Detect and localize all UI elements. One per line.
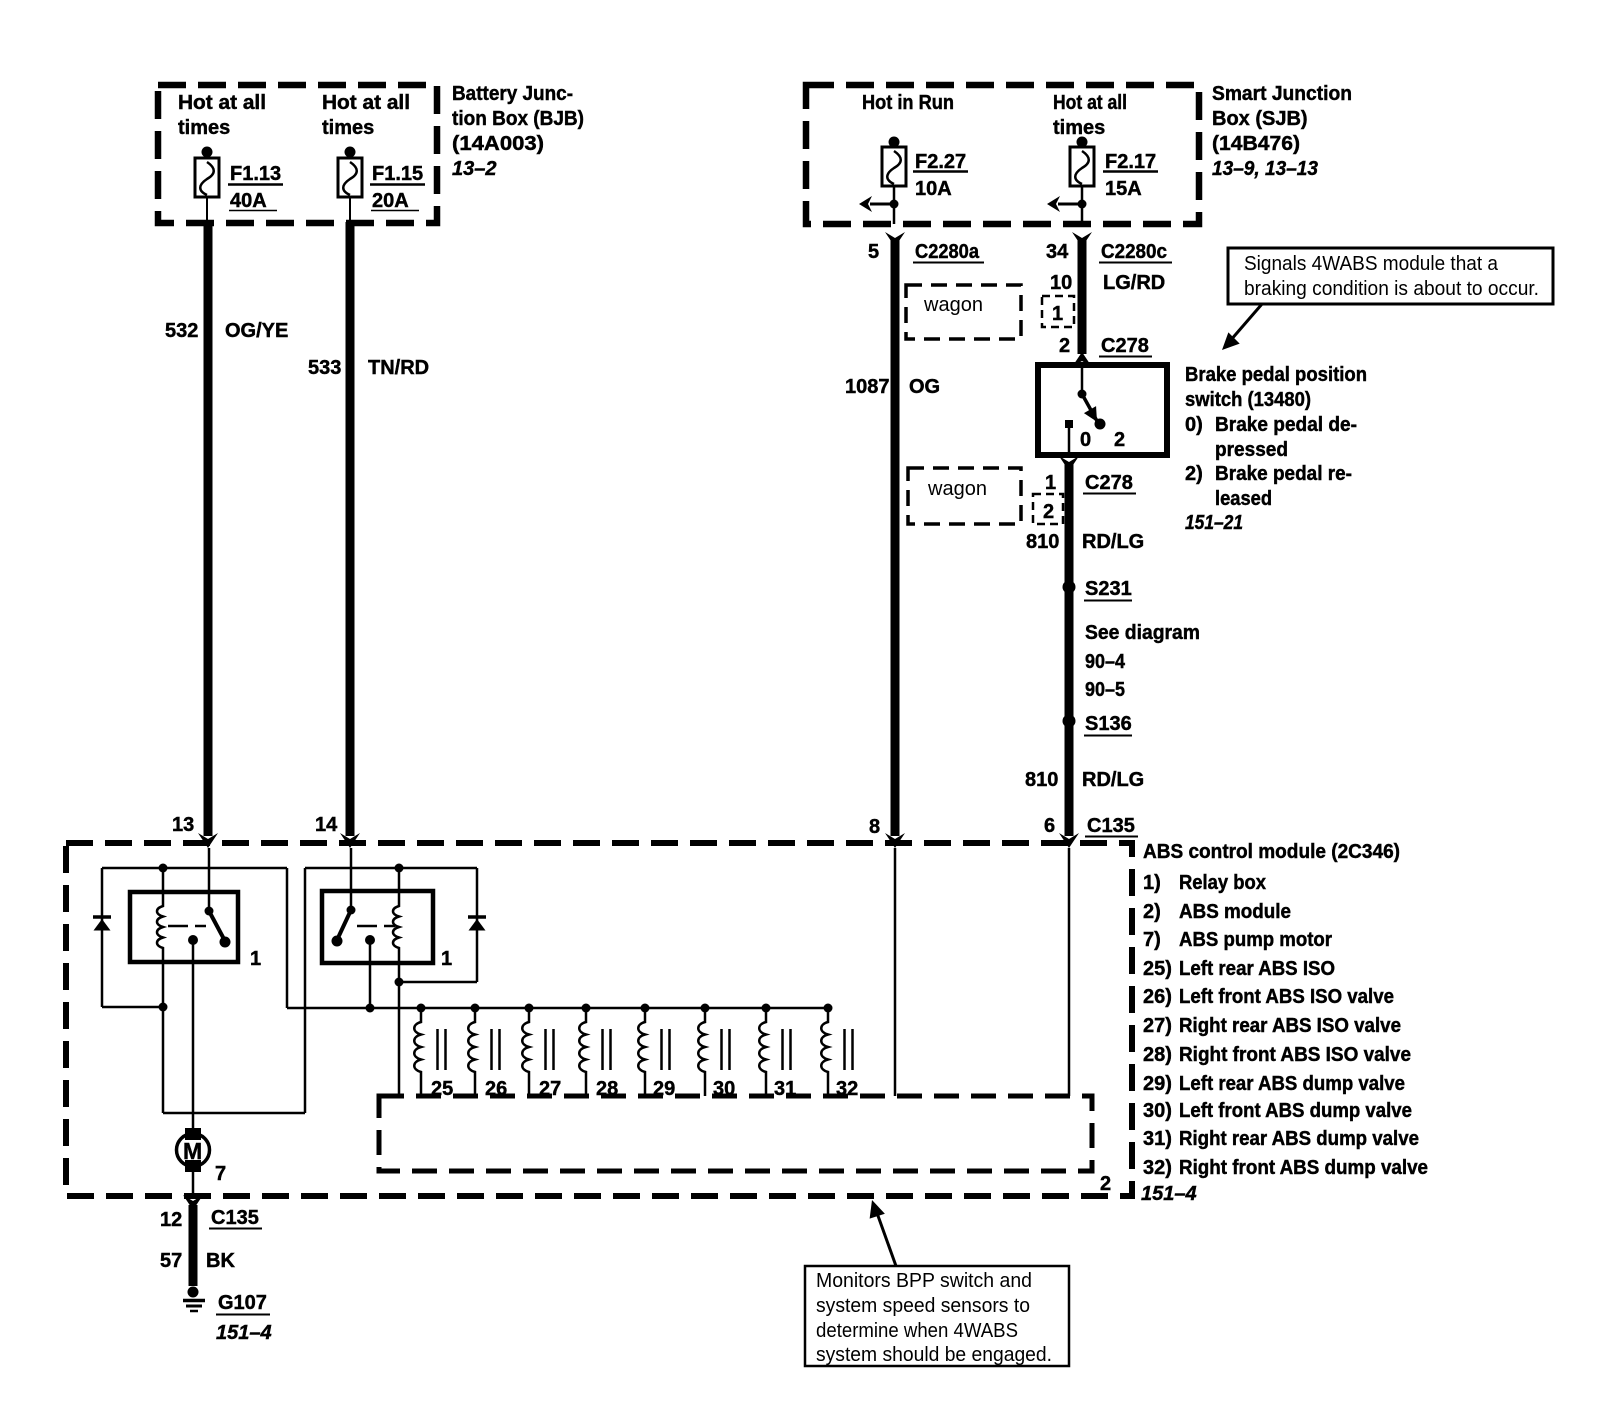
in-line connector 2 xyxy=(1033,494,1063,524)
svg-text:25): 25) xyxy=(1143,958,1172,980)
in-line connector 1 xyxy=(1042,296,1074,327)
svg-text:12: 12 xyxy=(160,1209,182,1231)
svg-text:F2.27: F2.27 xyxy=(915,151,966,173)
ABS module (2) inner dashed box xyxy=(379,1096,1111,1195)
splice S136 xyxy=(1063,713,1133,736)
pin 13 into ABS module xyxy=(172,814,218,848)
fuse F1.15 20A xyxy=(322,92,425,222)
svg-text:switch (13480): switch (13480) xyxy=(1185,389,1311,411)
svg-text:RD/LG: RD/LG xyxy=(1082,769,1144,791)
svg-text:2: 2 xyxy=(1114,429,1125,451)
svg-text:5: 5 xyxy=(868,241,879,263)
valve 27 right rear ABS ISO xyxy=(522,1004,561,1101)
wire 533 TN/RD xyxy=(308,222,429,836)
svg-text:(14B476): (14B476) xyxy=(1212,133,1300,155)
svg-text:27): 27) xyxy=(1143,1015,1172,1037)
svg-text:Right rear ABS ISO valve: Right rear ABS ISO valve xyxy=(1179,1015,1401,1037)
svg-text:90–5: 90–5 xyxy=(1085,679,1125,701)
svg-text:C2280c: C2280c xyxy=(1101,241,1167,263)
Smart Junction Box (SJB) dashed enclosure xyxy=(806,83,1352,224)
svg-text:7: 7 xyxy=(215,1163,226,1185)
SJB bus arrow left of F2.27 xyxy=(859,196,899,212)
svg-text:57: 57 xyxy=(160,1250,182,1272)
svg-text:C135: C135 xyxy=(1087,815,1135,837)
svg-text:533: 533 xyxy=(308,357,341,379)
svg-text:C278: C278 xyxy=(1101,335,1149,357)
wire 1087 OG xyxy=(845,240,940,836)
svg-text:leased: leased xyxy=(1215,488,1272,510)
svg-text:151–21: 151–21 xyxy=(1185,512,1243,534)
svg-text:10A: 10A xyxy=(915,178,952,200)
fuse F1.13 40A xyxy=(178,92,283,222)
svg-text:ABS control module (2C346): ABS control module (2C346) xyxy=(1143,841,1400,863)
fuse F2.27 10A xyxy=(862,92,968,224)
diode D1 (relay 1 clamp) xyxy=(93,868,111,1007)
svg-text:ABS module: ABS module xyxy=(1179,901,1291,923)
svg-text:Left rear ABS ISO: Left rear ABS ISO xyxy=(1179,958,1335,980)
svg-text:90–4: 90–4 xyxy=(1085,651,1126,673)
svg-text:wagon: wagon xyxy=(923,294,983,316)
svg-text:34: 34 xyxy=(1046,241,1069,263)
svg-text:Hot at all: Hot at all xyxy=(178,92,266,114)
svg-text:1: 1 xyxy=(1045,472,1056,494)
svg-text:2: 2 xyxy=(1100,1173,1111,1195)
svg-text:14: 14 xyxy=(315,814,338,836)
svg-text:LG/RD: LG/RD xyxy=(1103,272,1165,294)
svg-text:1087: 1087 xyxy=(845,376,890,398)
wire 810 RD/LG (lower segment label) xyxy=(1025,769,1144,791)
svg-text:Battery Junc-: Battery Junc- xyxy=(452,83,573,105)
svg-text:C2280a: C2280a xyxy=(915,241,980,263)
ABS control module (2C346) dashed enclosure xyxy=(66,843,1132,1196)
svg-text:20A: 20A xyxy=(372,190,409,212)
svg-text:7): 7) xyxy=(1143,929,1161,951)
svg-text:Brake pedal de-: Brake pedal de- xyxy=(1215,414,1357,436)
wire 10 LG/RD xyxy=(1050,240,1165,354)
svg-text:Hot at all: Hot at all xyxy=(1053,92,1127,114)
connector C278 pin 2 xyxy=(1059,335,1152,367)
svg-text:times: times xyxy=(322,117,374,139)
wire relay2 coil to ABS module xyxy=(395,978,478,1097)
svg-text:system speed sensors to: system speed sensors to xyxy=(816,1295,1030,1317)
svg-text:Box (SJB): Box (SJB) xyxy=(1212,108,1308,130)
relay 1 coil feed loop wire xyxy=(102,864,287,1012)
svg-text:Right front ABS dump valve: Right front ABS dump valve xyxy=(1179,1157,1428,1179)
ABS control module legend xyxy=(1141,841,1428,1205)
Battery Junction Box (BJB) dashed enclosure xyxy=(158,83,584,223)
valve 29 left rear ABS dump xyxy=(638,1004,675,1101)
svg-text:See diagram: See diagram xyxy=(1085,622,1200,644)
svg-text:810: 810 xyxy=(1025,769,1058,791)
brake pedal position switch 13480 xyxy=(1038,365,1167,455)
svg-text:810: 810 xyxy=(1026,531,1059,553)
svg-text:times: times xyxy=(178,117,230,139)
svg-text:wagon: wagon xyxy=(927,478,987,500)
svg-text:Left front ABS ISO valve: Left front ABS ISO valve xyxy=(1179,986,1394,1008)
svg-text:2: 2 xyxy=(1059,335,1070,357)
wagon variant box (upper) xyxy=(906,285,1021,339)
svg-text:532: 532 xyxy=(165,320,198,342)
svg-text:G107: G107 xyxy=(218,1292,267,1314)
relay K2 (valve power relay) xyxy=(322,848,452,982)
svg-text:151–4: 151–4 xyxy=(1141,1183,1197,1205)
connector C2280c pin 34 xyxy=(1046,232,1172,263)
ABS module pin 6 internal wire xyxy=(1068,848,1071,1096)
svg-text:8: 8 xyxy=(869,816,880,838)
svg-text:Brake pedal re-: Brake pedal re- xyxy=(1215,463,1352,485)
brake pedal position switch text xyxy=(1185,364,1367,534)
svg-text:0): 0) xyxy=(1185,414,1203,436)
splice S231 xyxy=(1063,578,1133,601)
svg-text:10: 10 xyxy=(1050,272,1072,294)
svg-text:13: 13 xyxy=(172,814,194,836)
wire relay1 output to pump motor xyxy=(192,940,195,1130)
ground G107 xyxy=(183,1287,272,1345)
svg-text:40A: 40A xyxy=(230,190,267,212)
valve 28 right front ABS ISO xyxy=(579,1004,618,1101)
svg-text:braking condition is about to: braking condition is about to occur. xyxy=(1244,278,1539,300)
svg-text:30): 30) xyxy=(1143,1100,1172,1122)
valve 31 right rear ABS dump xyxy=(759,1004,796,1101)
svg-text:OG: OG xyxy=(909,376,940,398)
see diagram reference xyxy=(1085,622,1200,701)
svg-text:2): 2) xyxy=(1185,463,1203,485)
pin 12 connector C135 xyxy=(160,1195,262,1231)
svg-text:S136: S136 xyxy=(1085,713,1132,735)
wagon variant box (lower) xyxy=(908,468,1021,524)
svg-text:ABS pump motor: ABS pump motor xyxy=(1179,929,1332,951)
svg-text:times: times xyxy=(1053,117,1105,139)
svg-text:Signals 4WABS module that a: Signals 4WABS module that a xyxy=(1244,253,1499,275)
ABS module pin 8 internal wire xyxy=(894,848,897,1096)
svg-text:F1.15: F1.15 xyxy=(372,163,423,185)
valve 30 left front ABS dump xyxy=(698,1004,735,1101)
svg-text:Brake pedal position: Brake pedal position xyxy=(1185,364,1367,386)
svg-text:0: 0 xyxy=(1080,429,1091,451)
svg-text:F2.17: F2.17 xyxy=(1105,151,1156,173)
svg-text:(14A003): (14A003) xyxy=(452,133,544,155)
svg-text:F1.13: F1.13 xyxy=(230,163,281,185)
svg-text:1: 1 xyxy=(250,948,261,970)
svg-text:determine when 4WABS: determine when 4WABS xyxy=(816,1320,1018,1342)
svg-text:Left rear ABS dump valve: Left rear ABS dump valve xyxy=(1179,1073,1405,1095)
SJB bus arrow left of F2.17 xyxy=(1047,196,1087,212)
svg-text:151–4: 151–4 xyxy=(216,1322,272,1344)
svg-text:Left front ABS dump valve: Left front ABS dump valve xyxy=(1179,1100,1412,1122)
svg-text:2): 2) xyxy=(1143,901,1161,923)
note: signals 4WABS module xyxy=(1216,248,1553,356)
svg-text:1: 1 xyxy=(1052,303,1063,325)
wire 810 RD/LG (upper segment) xyxy=(1026,462,1144,836)
svg-text:Right rear ABS dump valve: Right rear ABS dump valve xyxy=(1179,1128,1419,1150)
svg-text:15A: 15A xyxy=(1105,178,1142,200)
fuse F2.17 15A xyxy=(1053,92,1158,224)
svg-text:2: 2 xyxy=(1043,501,1054,523)
svg-text:RD/LG: RD/LG xyxy=(1082,531,1144,553)
diode D2 (relay 2 clamp) xyxy=(468,868,486,982)
note: monitors BPP switch xyxy=(805,1198,1069,1366)
svg-text:S231: S231 xyxy=(1085,578,1132,600)
svg-text:29): 29) xyxy=(1143,1073,1172,1095)
svg-text:1: 1 xyxy=(441,948,452,970)
valve 32 right front ABS dump xyxy=(821,1004,858,1101)
svg-text:system should be engaged.: system should be engaged. xyxy=(816,1344,1052,1366)
wire 57 BK xyxy=(160,1205,235,1286)
svg-text:28): 28) xyxy=(1143,1044,1172,1066)
ABS pump motor M xyxy=(177,1128,227,1198)
svg-text:Monitors BPP switch and: Monitors BPP switch and xyxy=(816,1270,1032,1292)
svg-text:Hot at all: Hot at all xyxy=(322,92,410,114)
valve 25 left rear ABS ISO xyxy=(414,1004,453,1101)
svg-text:C135: C135 xyxy=(211,1207,259,1229)
svg-text:C278: C278 xyxy=(1085,472,1133,494)
valve 26 left front ABS ISO xyxy=(468,1004,507,1101)
svg-text:Relay box: Relay box xyxy=(1179,872,1266,894)
relay K1 (pump motor relay) xyxy=(130,848,261,1007)
svg-text:26): 26) xyxy=(1143,986,1172,1008)
svg-text:1): 1) xyxy=(1143,872,1161,894)
valve supply bus xyxy=(287,1007,831,1010)
svg-text:13–2: 13–2 xyxy=(452,158,497,180)
pin 14 into ABS module xyxy=(315,814,360,848)
pin 8 into ABS module xyxy=(869,816,905,848)
svg-text:32): 32) xyxy=(1143,1157,1172,1179)
connector C2280a pin 5 xyxy=(868,232,984,263)
pin 6 connector C135 xyxy=(1044,815,1138,848)
svg-text:6: 6 xyxy=(1044,815,1055,837)
svg-text:tion Box (BJB): tion Box (BJB) xyxy=(452,108,584,130)
svg-text:BK: BK xyxy=(206,1250,235,1272)
svg-text:31): 31) xyxy=(1143,1128,1172,1150)
wire relay1 coil to relay2 loop xyxy=(163,864,477,1114)
wire 532 OG/YE xyxy=(165,222,288,836)
svg-text:OG/YE: OG/YE xyxy=(225,320,288,342)
wire relay2 output to valve bus xyxy=(366,940,375,1013)
svg-text:13–9, 13–13: 13–9, 13–13 xyxy=(1212,158,1318,180)
svg-text:Right front ABS ISO valve: Right front ABS ISO valve xyxy=(1179,1044,1411,1066)
svg-text:Hot in Run: Hot in Run xyxy=(862,92,954,114)
svg-text:TN/RD: TN/RD xyxy=(368,357,429,379)
svg-text:pressed: pressed xyxy=(1215,439,1288,461)
connector C278 pin 1 xyxy=(1045,456,1136,494)
svg-text:Smart Junction: Smart Junction xyxy=(1212,83,1352,105)
